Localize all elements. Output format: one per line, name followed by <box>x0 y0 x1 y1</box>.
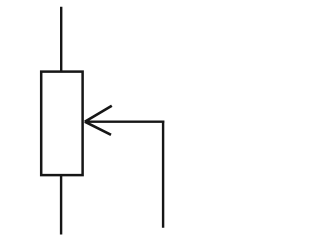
wiper arrowhead upper barb <box>85 106 112 122</box>
wiper arrowhead lower barb <box>85 122 111 135</box>
wire: wiper horizontal segment <box>85 120 165 122</box>
wire: bottom terminal lead <box>60 175 62 235</box>
potentiometer body (resistor rectangle) <box>41 72 82 176</box>
wire: wiper vertical segment <box>162 121 164 228</box>
wire: top terminal lead <box>60 7 62 73</box>
